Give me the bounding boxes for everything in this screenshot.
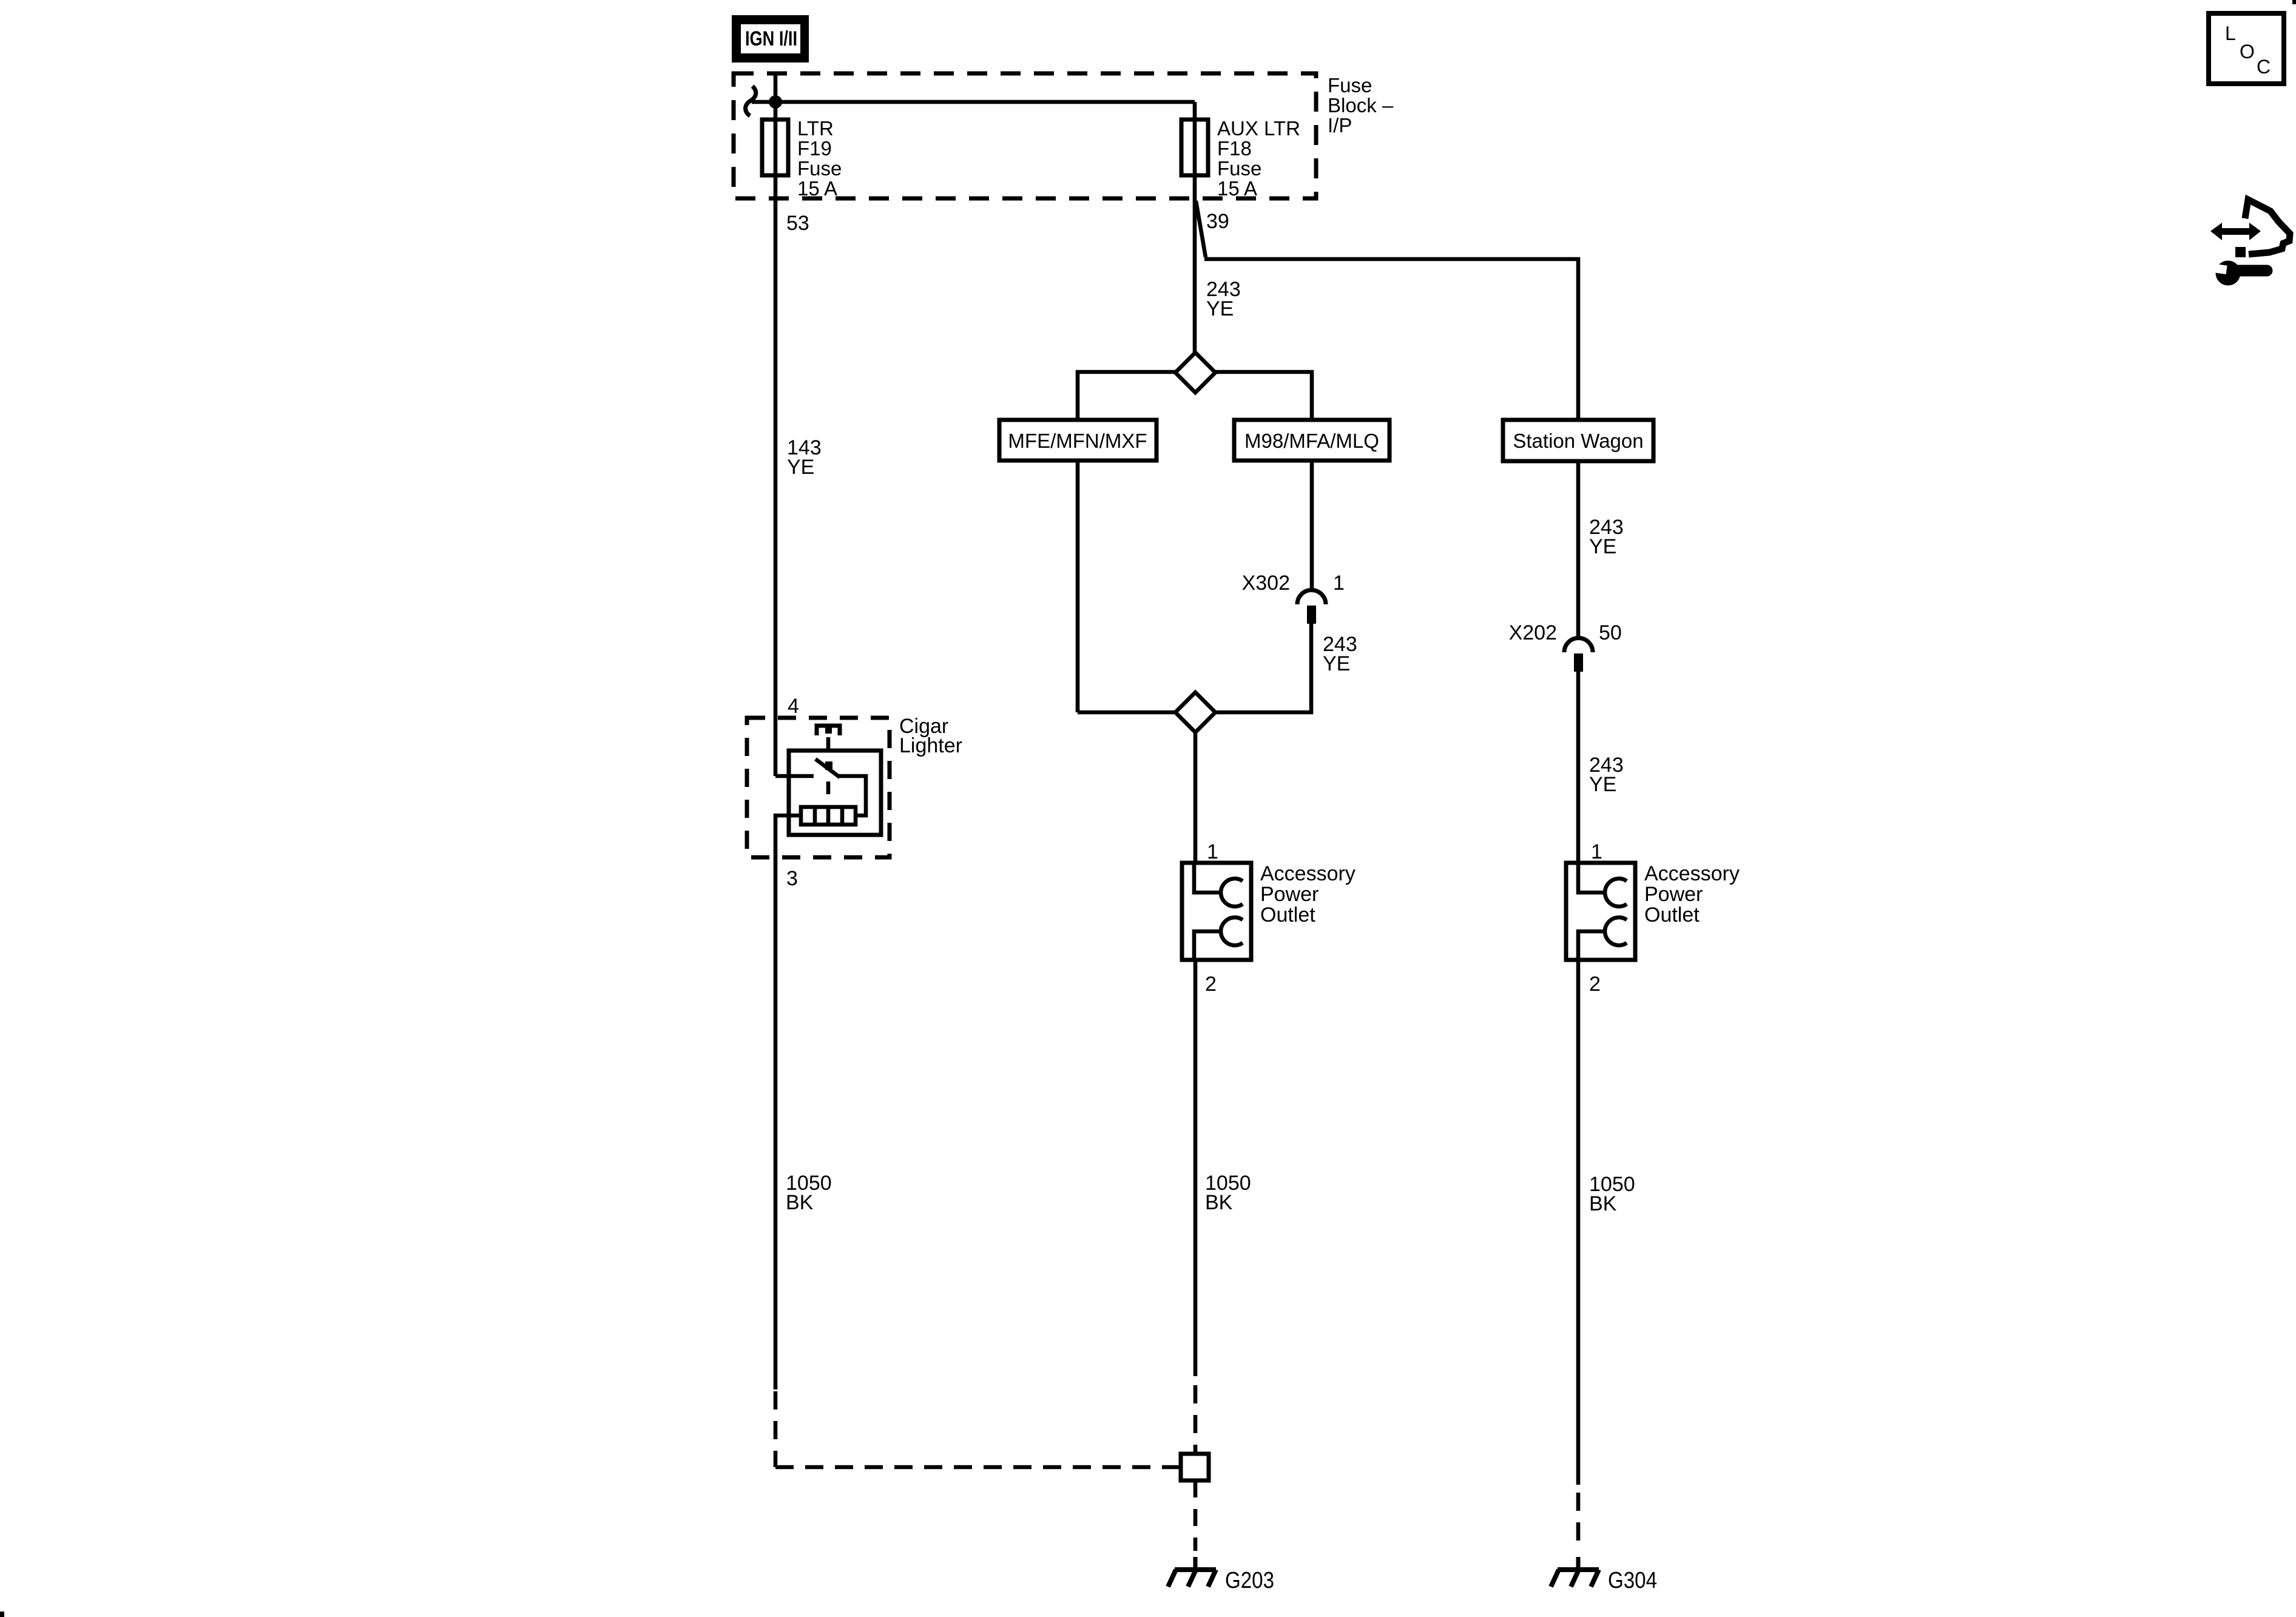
splice diamond lower (1175, 692, 1215, 732)
svg-text:50: 50 (1599, 621, 1622, 644)
option box MFE/MFN/MXF (999, 420, 1156, 461)
wire label 243 YE station wagon upper (1589, 516, 1624, 558)
dashed wire to ground G304 (1576, 1493, 1581, 1551)
svg-text:YE: YE (1589, 773, 1616, 796)
svg-text:2: 2 (1205, 973, 1217, 996)
svg-text:53: 53 (786, 212, 809, 235)
svg-text:Accessory: Accessory (1260, 862, 1356, 885)
wire label 143 YE (787, 436, 822, 479)
svg-text:3: 3 (786, 867, 798, 890)
connector X202 female half (1564, 638, 1593, 653)
wire stub into switch (775, 774, 814, 778)
scan artifact bottom left (0, 1612, 4, 1617)
svg-text:Power: Power (1260, 883, 1319, 906)
wire below middle outlet (1194, 960, 1198, 1376)
wire stub left of junction with continuation squiggle (752, 100, 775, 104)
svg-text:G203: G203 (1225, 1568, 1274, 1593)
svg-text:1: 1 (1207, 840, 1218, 863)
svg-text:Outlet: Outlet (1644, 903, 1700, 927)
svg-text:Power: Power (1644, 883, 1703, 906)
service icon wrench (2210, 261, 2267, 286)
dashed mechanical link upper (826, 737, 831, 751)
svg-text:O: O (2240, 41, 2255, 62)
svg-text:X302: X302 (1242, 572, 1290, 595)
svg-text:X202: X202 (1509, 621, 1557, 644)
svg-text:Outlet: Outlet (1260, 903, 1315, 927)
wire label 243 YE below X202 (1589, 754, 1624, 796)
cigar lighter inner case (789, 751, 881, 835)
connector X302 female half (1297, 590, 1326, 604)
service icon part outline (2245, 200, 2290, 254)
scan artifact top right (2292, 0, 2296, 4)
svg-text:YE: YE (1323, 652, 1350, 675)
svg-text:2: 2 (1589, 973, 1601, 996)
service icon double arrow (2210, 223, 2261, 240)
wire pin 39 below F18 (1193, 175, 1197, 353)
svg-text:AUX LTR: AUX LTR (1217, 117, 1300, 140)
svg-text:YE: YE (787, 456, 814, 479)
svg-text:G304: G304 (1608, 1568, 1657, 1593)
splice diamond upper (1175, 353, 1215, 393)
dashed mechanical link lower (826, 781, 831, 794)
svg-text:4: 4 (788, 695, 799, 718)
svg-text:Station Wagon: Station Wagon (1513, 430, 1643, 452)
wire below M98 box to connector X302 (1310, 461, 1314, 592)
wire bus from diamond to option branches (1078, 372, 1312, 420)
svg-text:BK: BK (1205, 1191, 1233, 1214)
svg-text:Fuse: Fuse (1328, 74, 1372, 96)
wire left bus into lower diamond (1078, 711, 1175, 715)
svg-text:L: L (2225, 22, 2236, 44)
wire from lower diamond to outlet pin 1 (1194, 732, 1198, 863)
svg-text:IGN I/II: IGN I/II (745, 27, 797, 50)
svg-text:15 A: 15 A (797, 177, 837, 200)
ground symbol G203 (1168, 1557, 1274, 1593)
wire horizontal to station wagon column (1204, 259, 1578, 420)
continuation S symbol (746, 86, 756, 116)
label Accessory Power Outlet middle (1260, 862, 1356, 927)
label Accessory Power Outlet right (1644, 862, 1740, 927)
ground symbol G304 (1551, 1557, 1657, 1593)
svg-text:LTR: LTR (797, 117, 834, 140)
svg-text:Fuse: Fuse (1217, 157, 1261, 180)
label Cigar Lighter (899, 715, 962, 757)
fuse AUX LTR F18 15A (1181, 102, 1300, 200)
heating element row (801, 807, 856, 825)
svg-text:Accessory: Accessory (1644, 862, 1740, 885)
wire below MFE box to lower bus (1076, 461, 1080, 712)
wire label 1050 BK middle (1205, 1172, 1251, 1214)
wire below X202 (1576, 672, 1581, 863)
wire label 1050 BK right (1589, 1173, 1635, 1215)
wire pin 53 below F19 (774, 175, 778, 776)
svg-text:F18: F18 (1217, 137, 1252, 160)
power symbol IGN I/II (732, 15, 809, 62)
connector X302 male terminal (1307, 606, 1316, 624)
svg-text:Block –: Block – (1328, 94, 1394, 116)
svg-text:15 A: 15 A (1217, 177, 1257, 200)
splice square S-connection (1181, 1454, 1209, 1480)
wire junction to AUX LTR fuse (775, 100, 1195, 104)
location code box LOC (2209, 13, 2284, 84)
dashed wire below splice to ground (1194, 1480, 1198, 1551)
wire from top into fuse block (774, 73, 778, 120)
wire label 1050 BK left (786, 1172, 832, 1214)
wire junction dot (769, 95, 782, 109)
cigar lighter dashed boundary (747, 718, 890, 857)
wire label 243 YE (1206, 278, 1241, 320)
dashed wire to splice square (1194, 1385, 1198, 1454)
svg-text:BK: BK (786, 1191, 814, 1214)
svg-text:Fuse: Fuse (797, 157, 842, 180)
accessory power outlet middle (1182, 863, 1251, 960)
wire station wagon column to X202 (1576, 461, 1581, 640)
option box Station Wagon (1503, 420, 1653, 461)
svg-text:1: 1 (1333, 572, 1345, 595)
svg-text:M98/MFA/MLQ: M98/MFA/MLQ (1244, 430, 1379, 452)
fuse LTR F19 15A (762, 117, 842, 200)
switch blade (815, 759, 840, 777)
connector X202 male terminal (1574, 653, 1583, 672)
svg-text:Lighter: Lighter (899, 734, 962, 757)
label Fuse Block - I/P (1328, 74, 1394, 137)
wire below X302 (1215, 624, 1311, 712)
svg-text:MFE/MFN/MXF: MFE/MFN/MXF (1008, 430, 1147, 452)
accessory power outlet right (1566, 863, 1635, 960)
dashed ground wire left to splice square (775, 1391, 1181, 1467)
svg-text:1: 1 (1591, 840, 1602, 863)
svg-text:I/P: I/P (1328, 114, 1352, 137)
svg-text:YE: YE (1589, 535, 1616, 558)
option box M98/MFA/MLQ (1234, 420, 1389, 461)
switch wire to element (839, 776, 866, 815)
fuse block dashed boundary Fuse Block - I/P (734, 73, 1316, 198)
wire slant branch to station wagon feed (1196, 201, 1206, 257)
svg-text:39: 39 (1206, 210, 1229, 233)
svg-text:YE: YE (1206, 297, 1234, 320)
svg-text:BK: BK (1589, 1192, 1617, 1215)
wire below right outlet (1576, 960, 1581, 1485)
cigar lighter element bracket (817, 726, 840, 735)
svg-text:F19: F19 (797, 137, 832, 160)
wire label 243 YE below X302 (1323, 633, 1357, 675)
svg-text:C: C (2257, 56, 2271, 78)
wire from element down to pin 3 (775, 815, 801, 1389)
